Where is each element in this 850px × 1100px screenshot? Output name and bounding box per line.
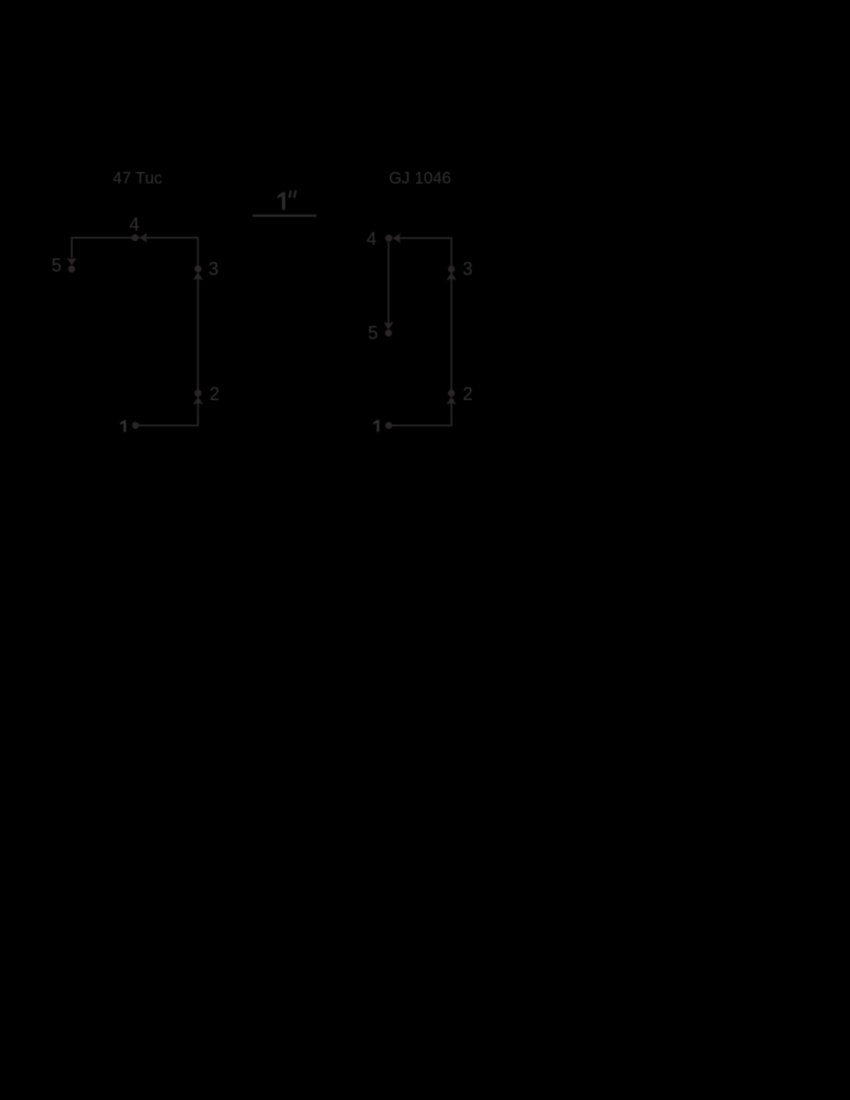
wire: GJ bottom segment 1-2 (389, 397, 452, 426)
svg-text:GJ 1046: GJ 1046 (389, 169, 451, 187)
scale label 1" (277, 192, 285, 210)
wire: 47 Tuc right segment 2-3 (197, 272, 199, 393)
svg-text:2: 2 (209, 384, 219, 404)
wire: GJ segment 4-5 (388, 242, 390, 323)
svg-text:2: 2 (463, 384, 473, 404)
node 5 (GJ) with down arrow (384, 322, 394, 330)
node 2 (GJ) with up arrow (448, 390, 455, 397)
svg-text:4: 4 (366, 229, 376, 249)
svg-text:4: 4 (129, 215, 139, 235)
svg-text:3: 3 (463, 259, 473, 279)
wire: 47 Tuc segment 4-5 (72, 238, 135, 258)
node 1 (47 Tuc) (132, 422, 139, 429)
node 1 (GJ) (385, 422, 392, 429)
wire: 47 Tuc bottom segment 1-2 (136, 397, 199, 426)
svg-text:3: 3 (208, 259, 218, 279)
wire: GJ right segment 2-3 (450, 272, 452, 393)
node 4 (GJ) with left arrow (385, 235, 392, 242)
svg-text:5: 5 (368, 323, 378, 343)
wire: GJ segment 3-4 (393, 238, 451, 269)
svg-text:5: 5 (51, 256, 61, 276)
node 5 (47 Tuc) with down arrow (67, 258, 77, 266)
node 2 (47 Tuc) with up arrow (195, 390, 202, 397)
node 4 (47 Tuc) with left arrow (132, 234, 139, 241)
wire: 47 Tuc segment 3-4 (135, 238, 198, 269)
svg-text:47 Tuc: 47 Tuc (113, 169, 163, 187)
node 3 (47 Tuc) with up arrow (195, 265, 202, 272)
scale bar (253, 215, 317, 217)
node 3 (GJ) with up arrow (448, 266, 455, 273)
